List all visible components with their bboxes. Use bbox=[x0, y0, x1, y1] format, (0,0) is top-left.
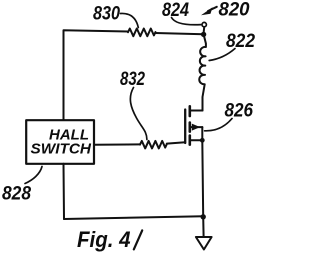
svg-text:SWITCH: SWITCH bbox=[31, 141, 93, 158]
resistor R830 bbox=[128, 29, 156, 37]
leader 822 bbox=[209, 49, 235, 61]
arrow 820 bbox=[208, 7, 217, 11]
node 824 junction dot bbox=[201, 32, 206, 37]
hall switch box U828 bbox=[26, 120, 94, 164]
wire: hall switch bottom to ground rail bbox=[63, 164, 66, 219]
transistor Q826 channel segment drain bbox=[189, 106, 192, 116]
svg-text:822: 822 bbox=[226, 31, 255, 52]
svg-text:820: 820 bbox=[219, 0, 250, 21]
leader 832 bbox=[130, 88, 147, 140]
leader 828 bbox=[25, 167, 42, 184]
svg-text:826: 826 bbox=[225, 101, 254, 122]
transistor Q826 gate bar bbox=[184, 110, 186, 144]
transistor Q826 source stub bbox=[190, 139, 203, 141]
wire: hall switch to resistor 832 bbox=[94, 143, 140, 145]
leader 830 bbox=[121, 13, 139, 27]
junction dot bottom rail bbox=[201, 214, 206, 219]
wire: transistor source to ground bbox=[202, 140, 203, 236]
wire bottom rail bbox=[64, 216, 203, 219]
transistor Q826 channel segment body bbox=[189, 123, 192, 132]
svg-text:Fig. 4: Fig. 4 bbox=[77, 227, 131, 252]
wire top-left: left vertical rail and top wire to resistor 830 bbox=[64, 30, 129, 120]
leader 824 bbox=[172, 18, 201, 25]
transistor Q826 channel segment source bbox=[189, 136, 192, 145]
svg-text:828: 828 bbox=[2, 184, 31, 205]
transistor Q826 body to source vertical bbox=[201, 127, 203, 140]
transistor Q826 drain stub bbox=[190, 110, 203, 112]
wire: resistor 830 to node 824 bbox=[156, 33, 204, 34]
svg-text:832: 832 bbox=[120, 69, 145, 90]
figure caption numeral 1 slash bbox=[134, 230, 142, 249]
leader 826 bbox=[205, 119, 232, 131]
wire: terminal to junction bbox=[203, 27, 206, 32]
wire: resistor 832 to gate bbox=[167, 142, 185, 143]
ground symbol bbox=[196, 237, 212, 250]
inductor L822 bbox=[199, 34, 206, 110]
transistor Q826 source junction dot bbox=[200, 138, 205, 143]
terminal 824 open circle bbox=[202, 22, 206, 26]
svg-text:824: 824 bbox=[162, 0, 189, 21]
resistor R832 bbox=[140, 141, 167, 149]
transistor Q826 body line with arrow bbox=[190, 126, 203, 128]
svg-text:830: 830 bbox=[93, 4, 120, 25]
